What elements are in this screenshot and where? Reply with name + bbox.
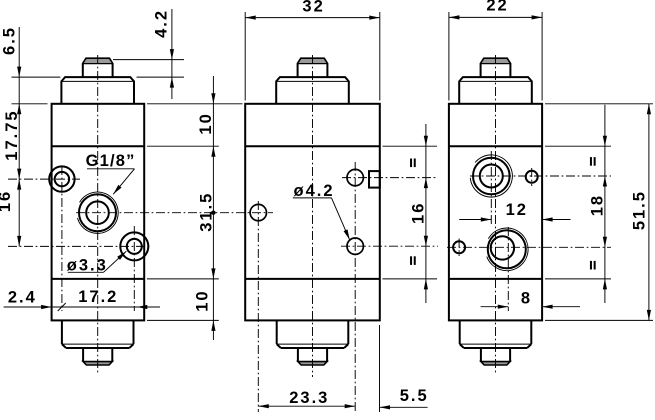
svg-text:22: 22 — [486, 0, 508, 15]
svg-text:18: 18 — [588, 194, 606, 216]
svg-text:G1/8”: G1/8” — [86, 152, 136, 170]
svg-text:10: 10 — [194, 289, 212, 311]
svg-text:2.4: 2.4 — [8, 288, 37, 306]
svg-text:23.3: 23.3 — [289, 389, 329, 407]
svg-text:32: 32 — [302, 0, 324, 16]
svg-text:31.5: 31.5 — [198, 192, 216, 232]
svg-text:16: 16 — [0, 190, 14, 212]
svg-text:16: 16 — [409, 202, 427, 224]
svg-text:8: 8 — [521, 289, 532, 307]
svg-text:10: 10 — [197, 112, 215, 134]
svg-text:6.5: 6.5 — [1, 26, 19, 55]
svg-text:4.2: 4.2 — [153, 9, 171, 38]
svg-text:17.2: 17.2 — [78, 288, 118, 306]
svg-text:17.75: 17.75 — [3, 109, 21, 160]
svg-text:51.5: 51.5 — [630, 190, 648, 230]
svg-text:12: 12 — [506, 201, 528, 219]
svg-text:ø3.3: ø3.3 — [67, 257, 108, 275]
svg-text:5.5: 5.5 — [400, 387, 429, 405]
